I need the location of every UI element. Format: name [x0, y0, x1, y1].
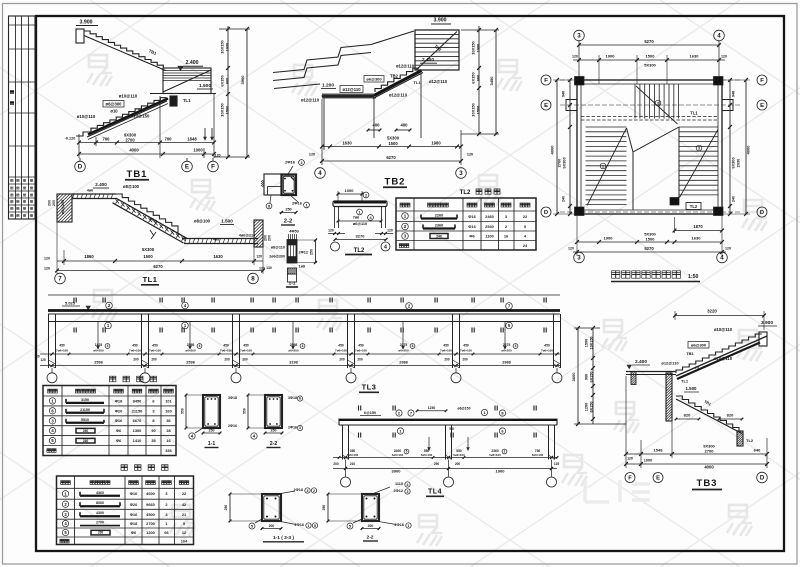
svg-text:Φ6: Φ6 [116, 438, 122, 443]
svg-text:1.500: 1.500 [686, 386, 698, 391]
svg-text:450: 450 [338, 344, 344, 348]
svg-text:820: 820 [684, 413, 691, 418]
upper table title [110, 376, 116, 382]
svg-text:250: 250 [224, 505, 228, 511]
svg-text:2988: 2988 [502, 361, 510, 365]
svg-text:ø6×200: ø6×200 [398, 349, 409, 353]
svg-text:1548: 1548 [654, 448, 664, 453]
svg-text:2Φ18: 2Φ18 [294, 488, 303, 492]
svg-text:450: 450 [132, 344, 138, 348]
svg-text:TB1: TB1 [686, 351, 694, 356]
svg-text:2: 2 [504, 450, 506, 454]
svg-text:ø10@110: ø10@110 [714, 356, 733, 361]
svg-text:120: 120 [328, 229, 334, 233]
svg-text:TL1: TL1 [143, 275, 158, 284]
TL3 mid-span hanger lines [97, 322, 507, 350]
svg-text:7ø6×100: 7ø6×100 [149, 349, 161, 353]
TL4 stirrup annotation row [347, 449, 544, 457]
svg-text:TL2: TL2 [460, 190, 471, 196]
svg-text:ø12@110: ø12@110 [301, 98, 320, 103]
svg-text:2598: 2598 [290, 343, 298, 347]
TL3 beam top chord thick [48, 309, 560, 312]
svg-text:5X300: 5X300 [387, 136, 400, 141]
upper table row 2 [49, 408, 171, 414]
svg-text:200: 200 [98, 531, 104, 535]
svg-text:ø6×200: ø6×200 [501, 349, 512, 353]
lower table grid [57, 476, 194, 545]
svg-text:ø10: ø10 [110, 109, 118, 114]
svg-text:ø10@110: ø10@110 [77, 114, 96, 119]
svg-text:250: 250 [310, 249, 314, 255]
TB3 axis bubble E [653, 473, 663, 483]
svg-text:2930: 2930 [736, 159, 741, 168]
svg-text:820: 820 [727, 413, 734, 418]
TL2 bottom dims [328, 229, 393, 242]
svg-text:5: 5 [406, 450, 408, 454]
TB1 landing slab [150, 68, 216, 94]
svg-text:5X300: 5X300 [142, 247, 155, 252]
TL2 axis bubbles [331, 242, 340, 251]
svg-text:1630: 1630 [342, 141, 352, 146]
TB2 upper flights break lines [273, 31, 414, 89]
svg-text:3270: 3270 [356, 234, 366, 239]
svg-text:5ø6×100: 5ø6×100 [532, 453, 544, 457]
svg-text:7ø6: 7ø6 [353, 216, 360, 220]
svg-text:5270: 5270 [644, 39, 654, 44]
svg-text:450: 450 [358, 344, 364, 348]
svg-text:3220: 3220 [707, 309, 717, 314]
svg-text:2: 2 [313, 489, 315, 493]
svg-text:7ø6×100: 7ø6×100 [440, 349, 452, 353]
svg-text:200: 200 [224, 358, 230, 362]
svg-text:450: 450 [223, 344, 229, 348]
stair structural plan view [541, 30, 767, 281]
axis bubble E [186, 158, 188, 161]
svg-text:5270: 5270 [644, 246, 654, 251]
svg-text:Φ16: Φ16 [130, 491, 138, 496]
svg-text:ø10@110: ø10@110 [714, 327, 733, 332]
svg-text:D: D [78, 164, 83, 171]
plan hidden beam TL1 [581, 116, 718, 118]
svg-text:TL4: TL4 [428, 489, 442, 496]
svg-text:5510: 5510 [81, 418, 89, 422]
lower table row 1 [62, 491, 187, 497]
TL1 right support column [254, 220, 272, 247]
svg-text:2460: 2460 [485, 214, 494, 219]
svg-text:3: 3 [577, 33, 581, 40]
section 1-1 height dim [297, 239, 317, 265]
section 2-2 slab part [261, 174, 282, 195]
svg-text:700: 700 [103, 137, 111, 142]
svg-text:550: 550 [243, 408, 247, 414]
svg-text:5ø6×100: 5ø6×100 [421, 453, 433, 457]
axis bubble D [79, 158, 81, 161]
svg-text:1500: 1500 [646, 236, 656, 241]
svg-text:5ø6×100: 5ø6×100 [347, 453, 359, 457]
svg-text:D: D [760, 476, 765, 482]
svg-text:75: 75 [695, 366, 699, 370]
TB2 bottom dimension chain [309, 99, 473, 165]
lower table row 3 [62, 511, 187, 517]
svg-text:6270: 6270 [386, 155, 396, 160]
svg-text:7ø6×100: 7ø6×100 [56, 349, 68, 353]
svg-text:1: 1 [408, 524, 410, 528]
svg-text:7ø6×100: 7ø6×100 [541, 349, 553, 353]
svg-text:TL1: TL1 [183, 98, 191, 103]
svg-text:2Φ12: 2Φ12 [394, 489, 403, 493]
TL3 stirrup marks above [74, 298, 546, 303]
TL3 slab top line [48, 294, 560, 296]
beam TL3 elevation [34, 295, 562, 392]
watermark glyphs [87, 55, 767, 546]
TL2 table row 1 [402, 213, 528, 220]
svg-text:2Φ16: 2Φ16 [295, 523, 304, 527]
svg-text:1825: 1825 [95, 343, 103, 347]
svg-text:1500: 1500 [225, 106, 230, 115]
plan side axis bubbles F E D right [757, 75, 767, 217]
svg-text:1900: 1900 [496, 469, 506, 474]
svg-text:3: 3 [407, 490, 409, 494]
svg-text:120: 120 [627, 457, 633, 461]
svg-text:3450: 3450 [489, 76, 494, 86]
TL3 dim line lower [40, 361, 560, 368]
svg-text:TB2: TB2 [385, 177, 406, 188]
svg-text:4000: 4000 [550, 145, 555, 155]
svg-text:8: 8 [251, 276, 255, 283]
lower table row 5 [62, 529, 187, 535]
plan middle column TL2 [670, 198, 679, 206]
svg-text:Φ16: Φ16 [115, 418, 123, 423]
svg-text:200: 200 [357, 358, 363, 362]
beam section 2-2 mid [261, 160, 309, 226]
svg-text:21150: 21150 [80, 408, 90, 412]
svg-text:250: 250 [285, 208, 291, 212]
svg-text:4: 4 [318, 170, 322, 177]
svg-text:4: 4 [515, 344, 517, 348]
svg-text:1300: 1300 [133, 428, 142, 433]
upper table row 5 [49, 437, 171, 443]
svg-text:336: 336 [165, 448, 172, 453]
beam section 1-1 3-3 bottom [224, 488, 318, 542]
TL4 dim texts [333, 462, 559, 474]
svg-text:7ø6×100: 7ø6×100 [335, 349, 347, 353]
svg-text:ø12@110: ø12@110 [389, 93, 408, 98]
svg-text:TL2: TL2 [690, 204, 698, 209]
svg-text:130: 130 [266, 266, 272, 270]
svg-text:3Φ18: 3Φ18 [228, 396, 237, 400]
svg-text:120: 120 [34, 355, 40, 359]
plan axis bubble 3 bottom [574, 252, 585, 263]
section 1-1 lower stem [288, 268, 297, 282]
svg-text:4ø6: 4ø6 [87, 189, 93, 193]
svg-text:E: E [185, 164, 189, 171]
svg-text:4600: 4600 [146, 491, 155, 496]
svg-text:7ø6×100: 7ø6×100 [129, 349, 141, 353]
TL3 top callout circles [106, 302, 513, 309]
svg-text:ø6×200: ø6×200 [93, 349, 104, 353]
upper table row 4 [49, 427, 171, 433]
svg-text:200: 200 [339, 358, 345, 362]
plan right dimension chain [722, 78, 751, 216]
svg-text:2275: 2275 [400, 343, 408, 347]
svg-text:6: 6 [299, 397, 301, 401]
svg-text:160: 160 [165, 408, 172, 413]
plan outer walls [577, 80, 722, 214]
TB2 flight slab [373, 68, 423, 98]
svg-text:ø10@150: ø10@150 [131, 114, 150, 119]
svg-text:120: 120 [721, 55, 727, 59]
svg-text:7ø6×100: 7ø6×100 [220, 349, 232, 353]
svg-text:ø8@100: ø8@100 [194, 219, 211, 224]
svg-text:-0.120: -0.120 [65, 137, 76, 141]
svg-text:F: F [628, 476, 632, 482]
svg-text:2-2: 2-2 [367, 535, 374, 541]
svg-text:Φ6: Φ6 [469, 234, 475, 239]
svg-text:Φ6: Φ6 [116, 428, 122, 433]
beam section 1-1 mid tall [256, 230, 317, 288]
svg-text:10X150: 10X150 [590, 336, 594, 349]
axis bubble 4 [315, 168, 326, 179]
svg-text:ø8@100: ø8@100 [123, 184, 140, 189]
svg-text:200: 200 [455, 462, 461, 466]
svg-text:3.900: 3.900 [80, 20, 93, 26]
svg-text:Φ16: Φ16 [468, 214, 476, 219]
TB1 upper flight steps [84, 31, 163, 68]
svg-text:ø12@110: ø12@110 [429, 79, 448, 84]
upper table total row [47, 448, 173, 453]
svg-text:4: 4 [199, 344, 201, 348]
svg-text:200: 200 [52, 200, 56, 206]
TL1 left support column [48, 194, 73, 222]
svg-text:4: 4 [107, 344, 109, 348]
svg-text:940: 940 [732, 91, 736, 97]
svg-text:TL1: TL1 [681, 379, 689, 384]
TB3 mid support wall [666, 373, 672, 421]
TB1 lower flight slab thick line [88, 99, 168, 135]
svg-text:ø6@300: ø6@300 [106, 102, 123, 107]
svg-text:120: 120 [259, 267, 265, 271]
svg-text:400: 400 [373, 123, 381, 128]
svg-text:Φ18: Φ18 [130, 521, 138, 526]
TL2 table title [460, 189, 500, 196]
svg-text:550: 550 [181, 408, 185, 414]
TB3 upper flight [676, 334, 767, 379]
stair section TB3 [571, 309, 777, 490]
svg-text:2700: 2700 [705, 449, 715, 454]
svg-text:TB1: TB1 [127, 169, 148, 180]
svg-text:6X150: 6X150 [590, 372, 594, 383]
TL3 stirrup marks below [74, 328, 546, 333]
svg-text:7: 7 [58, 276, 62, 283]
TB3 bottom dimension chain [624, 376, 769, 470]
TL3 support axis bubbles [47, 368, 562, 383]
axis bubble 3 [456, 168, 467, 179]
plan left dimension chain [550, 78, 578, 216]
TL1 upper landing slab [72, 194, 116, 199]
svg-text:2: 2 [657, 101, 659, 105]
svg-text:ø6×200: ø6×200 [185, 349, 196, 353]
svg-text:3.900: 3.900 [761, 320, 773, 326]
svg-text:6670: 6670 [133, 418, 142, 423]
svg-text:ø6@300: ø6@300 [366, 77, 382, 82]
svg-text:1500: 1500 [476, 106, 481, 115]
svg-text:ø12@110: ø12@110 [661, 361, 679, 366]
plan side stubs axis E [566, 100, 577, 111]
plan corner columns [575, 77, 724, 216]
svg-text:200: 200 [444, 358, 450, 362]
plan axis dashed lines [560, 80, 740, 212]
plan right flight treads [679, 127, 718, 198]
TB3 axis bubble D [757, 472, 768, 483]
svg-text:TB3: TB3 [697, 478, 718, 489]
TL4 beam body [339, 419, 557, 426]
svg-text:1.200: 1.200 [322, 83, 334, 89]
svg-text:6@150: 6@150 [364, 411, 376, 415]
svg-text:2598: 2598 [187, 343, 195, 347]
svg-text:9X300: 9X300 [562, 157, 567, 168]
TL3 lower callout circles [105, 322, 513, 329]
svg-text:E: E [544, 103, 548, 109]
svg-text:4: 4 [720, 255, 724, 262]
svg-text:120: 120 [387, 229, 393, 233]
svg-text:4000: 4000 [129, 148, 139, 153]
svg-text:Φ18: Φ18 [115, 398, 123, 403]
svg-text:1.500: 1.500 [221, 219, 233, 224]
TL1 bottom dimension chain [44, 222, 265, 274]
svg-text:900: 900 [476, 75, 481, 82]
svg-text:2540: 2540 [485, 224, 494, 229]
svg-text:450: 450 [59, 344, 65, 348]
svg-text:101: 101 [165, 398, 172, 403]
svg-text:4: 4 [384, 244, 387, 250]
svg-text:D: D [760, 210, 764, 216]
svg-text:2700: 2700 [146, 521, 155, 526]
svg-text:8X150: 8X150 [590, 402, 594, 413]
svg-text:1-1: 1-1 [208, 441, 216, 447]
svg-text:2Φ16: 2Φ16 [285, 160, 296, 165]
svg-text:4ø8: 4ø8 [213, 238, 219, 242]
TB3 mid landing slab [626, 372, 676, 385]
svg-text:450: 450 [152, 344, 158, 348]
svg-text:200: 200 [269, 524, 275, 528]
stair section TB1 [65, 20, 250, 181]
TB2 flight rebar annotations [364, 64, 448, 98]
svg-text:450: 450 [463, 344, 469, 348]
svg-text:ø6×200: ø6×200 [288, 349, 299, 353]
svg-text:1410: 1410 [133, 438, 142, 443]
plan side axis bubbles F E D left [541, 75, 551, 217]
TL2 beam body [333, 201, 387, 207]
svg-text:2.400: 2.400 [422, 57, 434, 63]
svg-text:8450: 8450 [133, 398, 142, 403]
TL2 supports [335, 207, 386, 229]
svg-text:5: 5 [314, 524, 316, 528]
TL4 above annotations [359, 406, 537, 417]
svg-text:2598: 2598 [186, 361, 194, 365]
svg-text:ø6@110: ø6@110 [353, 222, 367, 226]
table beam rebar schedule upper [43, 376, 176, 455]
svg-text:200: 200 [368, 524, 374, 528]
svg-text:1100: 1100 [485, 234, 493, 239]
upper table grid [43, 386, 176, 456]
lower table title [121, 465, 127, 471]
svg-text:ø12@110: ø12@110 [396, 64, 415, 69]
beam TL2 elevation [328, 188, 393, 255]
svg-text:2700: 2700 [96, 521, 104, 525]
TB1 right dimension chain [214, 26, 250, 159]
TL2 table header row [400, 203, 530, 207]
svg-text:2.400: 2.400 [95, 182, 107, 187]
beam section 2-2 (by upper table) [243, 394, 303, 448]
svg-text:4Φ50: 4Φ50 [289, 230, 298, 234]
svg-text:4: 4 [302, 344, 304, 348]
svg-text:2260: 2260 [435, 214, 443, 218]
svg-text:3.900: 3.900 [434, 18, 447, 24]
svg-text:ø8@200: ø8@200 [61, 200, 65, 214]
svg-text:4000: 4000 [746, 145, 751, 155]
svg-text:7ø6×100: 7ø6×100 [460, 349, 472, 353]
svg-text:ø10@110: ø10@110 [119, 94, 138, 99]
TB1 bottom entry steps [76, 128, 91, 136]
TB2 support lines [324, 73, 421, 150]
svg-text:5ø6×100: 5ø6×100 [489, 453, 501, 457]
upper table row 1 [49, 398, 172, 404]
lower table row 4 [62, 520, 186, 526]
axis bubble F [212, 158, 214, 161]
svg-text:1-1 ( 3-3 ): 1-1 ( 3-3 ) [273, 535, 294, 541]
svg-text:2-2: 2-2 [270, 441, 278, 447]
svg-text:4: 4 [717, 33, 721, 40]
svg-text:ø8@110: ø8@110 [271, 246, 285, 250]
TL3 support columns [49, 314, 561, 368]
svg-text:2Φ16: 2Φ16 [395, 523, 404, 527]
svg-text:2275: 2275 [503, 343, 511, 347]
svg-text:940: 940 [562, 91, 566, 97]
svg-text:ø6@300: ø6@300 [691, 343, 707, 348]
svg-text:450: 450 [243, 344, 249, 348]
svg-text:1870: 1870 [693, 224, 703, 229]
svg-text:210: 210 [350, 462, 356, 466]
TB3 axis bubble F [625, 473, 635, 483]
svg-text:E: E [760, 103, 764, 109]
svg-text:2Φ12: 2Φ12 [299, 251, 308, 255]
svg-text:9660: 9660 [146, 502, 155, 507]
svg-text:Φ16: Φ16 [468, 224, 476, 229]
plan left flight treads [586, 127, 627, 206]
svg-text:120: 120 [256, 255, 262, 259]
svg-text:D: D [544, 210, 548, 216]
svg-text:4: 4 [407, 483, 409, 487]
svg-text:4360: 4360 [96, 491, 104, 495]
svg-text:F: F [760, 78, 764, 84]
plan title [611, 271, 700, 282]
plan stair well edges [627, 127, 680, 210]
svg-text:3: 3 [698, 146, 700, 150]
TB1 lower flight steps [91, 98, 167, 131]
svg-text:250: 250 [322, 505, 326, 511]
svg-text:1980: 1980 [431, 141, 441, 146]
svg-text:21150: 21150 [132, 408, 143, 413]
TB2 left landing slab [322, 94, 376, 98]
TB2 landing block with treads [415, 30, 459, 70]
TL2 annotations [337, 209, 383, 226]
section 1-1 core [288, 240, 297, 263]
axis bubble 7 [55, 273, 66, 284]
svg-text:200: 200 [333, 462, 339, 466]
svg-text:2988: 2988 [399, 361, 407, 365]
svg-text:5X300: 5X300 [644, 63, 656, 68]
svg-text:2.400: 2.400 [186, 60, 199, 66]
